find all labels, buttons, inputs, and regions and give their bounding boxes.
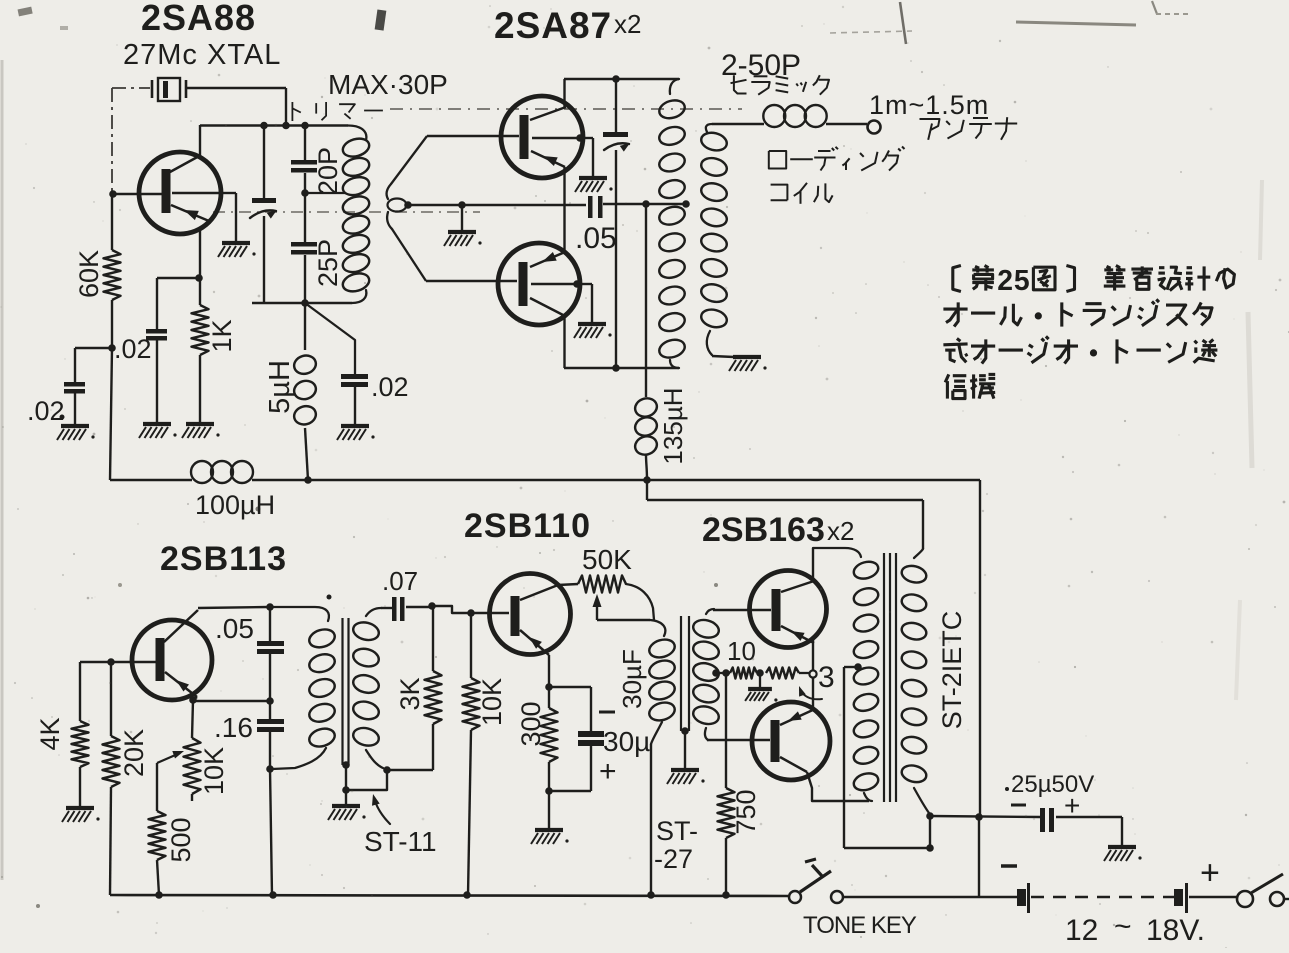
svg-text:10K: 10K [199, 747, 229, 795]
svg-text:+: + [1064, 790, 1080, 821]
svg-text:10: 10 [727, 636, 756, 666]
svg-text:x2: x2 [827, 516, 854, 546]
svg-text:TONE KEY: TONE KEY [803, 912, 917, 939]
svg-text:3: 3 [818, 661, 835, 694]
svg-text:50K: 50K [582, 544, 632, 575]
svg-text:100µH: 100µH [195, 490, 275, 520]
svg-text:300: 300 [516, 701, 546, 746]
svg-text:1m~1.5m: 1m~1.5m [869, 90, 989, 120]
svg-text:5µH: 5µH [264, 360, 296, 414]
svg-text:4K: 4K [35, 717, 65, 750]
svg-text:750: 750 [731, 789, 761, 834]
svg-text:20P: 20P [313, 147, 343, 195]
svg-text:60K: 60K [74, 250, 104, 298]
svg-text:.02: .02 [114, 334, 152, 364]
svg-text:-27: -27 [654, 844, 693, 874]
svg-text:MAX·30P: MAX·30P [328, 69, 448, 100]
svg-text:2: 2 [997, 265, 1013, 297]
svg-text:20K: 20K [119, 729, 149, 777]
svg-text:2SA88: 2SA88 [141, 0, 256, 38]
svg-text:5: 5 [1014, 265, 1030, 297]
svg-text:.16: .16 [214, 712, 253, 743]
svg-text:12: 12 [1065, 914, 1098, 947]
svg-text:3K: 3K [395, 677, 425, 710]
svg-text:25µ50V: 25µ50V [1011, 771, 1094, 798]
svg-text:+: + [1200, 854, 1220, 892]
svg-text:.05: .05 [575, 222, 617, 255]
svg-text:135µH: 135µH [658, 387, 688, 464]
svg-text:ST-2IETC: ST-2IETC [937, 611, 967, 730]
svg-text:x2: x2 [614, 9, 641, 39]
svg-text:ST-11: ST-11 [364, 826, 437, 857]
svg-text:500: 500 [166, 817, 196, 862]
svg-text:.02: .02 [371, 372, 409, 402]
svg-text:.05: .05 [215, 613, 254, 644]
svg-text:2SA87: 2SA87 [494, 5, 612, 46]
svg-text:30µ: 30µ [603, 726, 650, 757]
svg-text:ST-: ST- [656, 816, 698, 846]
svg-text:.07: .07 [382, 566, 418, 596]
svg-text:27Mc XTAL: 27Mc XTAL [123, 39, 281, 71]
svg-text:1K: 1K [207, 319, 237, 352]
svg-text:30µF: 30µF [617, 649, 647, 709]
svg-text:~: ~ [1114, 910, 1132, 943]
svg-text:2SB110: 2SB110 [464, 507, 591, 545]
svg-text:.02: .02 [27, 396, 65, 426]
svg-text:25P: 25P [313, 239, 343, 287]
svg-text:2SB113: 2SB113 [160, 540, 287, 578]
svg-text:+: + [599, 755, 617, 788]
svg-text:18V.: 18V. [1146, 914, 1205, 947]
svg-text:2SB163: 2SB163 [702, 511, 825, 549]
svg-text:10K: 10K [477, 678, 507, 726]
